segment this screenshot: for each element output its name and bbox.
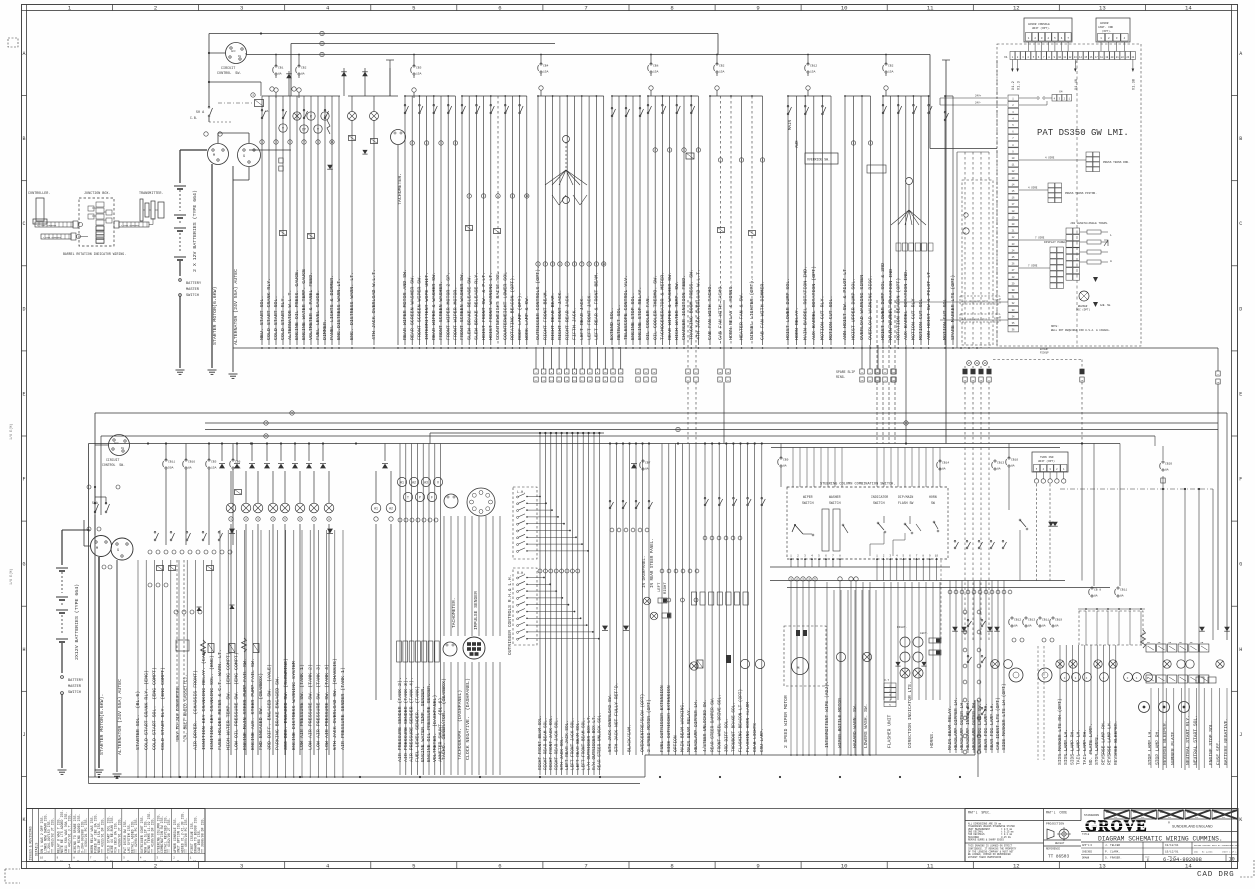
wire: [747, 444, 749, 756]
switch contact: [747, 504, 749, 506]
wire: [754, 444, 756, 756]
circle mid2: [740, 659, 749, 668]
wire: [178, 560, 180, 777]
dashed risers bottom: [964, 448, 966, 641]
svg-text:STARTER MOTOR(6.6KW).: STARTER MOTOR(6.6KW).: [99, 694, 105, 755]
svg-text:J. TELFER: J. TELFER: [1105, 844, 1120, 847]
issues and revisions table outline: [27, 809, 206, 862]
svg-text:REFERENCE: REFERENCE: [1046, 848, 1060, 851]
svg-text:HOIST UPPER DUMP SOL.: HOIST UPPER DUMP SOL.: [851, 278, 857, 340]
svg-text:10: 10: [841, 863, 848, 870]
switch contact: [733, 504, 735, 506]
switch contact: [882, 112, 884, 114]
svg-text:B: B: [1239, 136, 1242, 142]
svg-text:X4: X4: [1059, 91, 1063, 94]
wire: [690, 96, 692, 345]
svg-text:LEFT REAR BEAM SOL.: LEFT REAR BEAM SOL.: [576, 720, 581, 770]
wire: [405, 444, 407, 776]
svg-text:8A: 8A: [188, 467, 192, 470]
circuit breaker CB2: [716, 55, 718, 65]
lamp row bottom: [226, 503, 236, 513]
wire cluster bus: [845, 95, 871, 97]
wire: [566, 433, 568, 775]
switch contact: [954, 547, 956, 549]
wire: [342, 530, 344, 777]
outrigger switch: [517, 503, 519, 505]
wire: [211, 560, 213, 777]
relay: [743, 592, 748, 605]
mid bus 2: [205, 422, 1218, 424]
outrigger switch: [517, 496, 519, 498]
svg-text:SLEW BRAKE RELEASE SW.: SLEW BRAKE RELEASE SW.: [466, 275, 472, 340]
wire: [632, 96, 634, 345]
svg-text:CB4: CB4: [543, 65, 549, 68]
ground alternator bottom: [113, 773, 122, 775]
wire: [527, 543, 582, 545]
wire: [853, 96, 855, 345]
wire: [153, 560, 155, 777]
wire: [595, 96, 597, 345]
svg-text:7 CORE: 7 CORE: [1028, 265, 1038, 268]
switch contact: [625, 115, 627, 117]
switch contact: [519, 112, 521, 114]
circuit breaker CB8: [650, 55, 652, 65]
breaker right corner: [1162, 461, 1164, 463]
svg-text:TITLE: TITLE: [1082, 833, 1090, 836]
svg-text:SIDE OUTRIGGER EXTENSION: SIDE OUTRIGGER EXTENSION: [666, 685, 672, 752]
svg-text:1/8 E(M): 1/8 E(M): [9, 424, 14, 440]
press trans piston block: [1048, 183, 1055, 188]
svg-text:RETRACT SOL.: RETRACT SOL.: [616, 304, 622, 340]
wire: [1211, 688, 1213, 768]
horn mechanism: [933, 521, 935, 523]
terminal: [330, 140, 334, 144]
relay R2: [280, 231, 287, 236]
switch contact: [635, 507, 637, 509]
wire: [364, 68, 366, 96]
svg-text:C: C: [1239, 221, 1242, 227]
alarm wire to strip: [940, 319, 1008, 321]
svg-text:ISS: ISS: [1222, 817, 1225, 819]
wire: [890, 448, 892, 488]
wire: [389, 68, 391, 96]
outrigger switch: [517, 516, 519, 518]
wire: [799, 448, 801, 488]
switch contact: [324, 117, 326, 119]
wire: [492, 516, 494, 636]
wire: [527, 550, 588, 552]
wire: [1226, 688, 1228, 768]
wire: [539, 433, 541, 775]
svg-text:V: V: [317, 128, 319, 132]
svg-text:R: R: [310, 115, 312, 119]
svg-text:TT 4852/92 JT ISS.: TT 4852/92 JT ISS.: [51, 818, 55, 853]
dip main mechanism: [904, 523, 906, 525]
steering column dashed box: [787, 487, 948, 559]
wire: [404, 96, 406, 345]
terminal: [188, 550, 192, 554]
svg-text:8A: 8A: [1094, 595, 1098, 598]
controller cable 12 core screened: [35, 222, 73, 227]
svg-text:L/H OUTRIGGER BOX LT.: L/H OUTRIGGER BOX LT.: [587, 715, 592, 770]
terminal: [453, 141, 457, 145]
wire: [813, 448, 815, 488]
wire: [955, 581, 957, 754]
svg-text:4TH JACK OVERLOAD W.L.T.: 4TH JACK OVERLOAD W.L.T.: [371, 269, 377, 340]
terminal: [682, 148, 686, 152]
terminal: [653, 148, 657, 152]
outrigger switch: [517, 523, 519, 525]
relay R8: [718, 228, 725, 233]
switch contact: [218, 539, 220, 541]
outrigger switch: [517, 631, 519, 633]
wire: [618, 96, 620, 345]
svg-text:X1.3: X1.3: [1017, 81, 1021, 90]
switch contact: [676, 112, 678, 114]
wire: [861, 96, 863, 345]
svg-text:C.B.: C.B.: [190, 116, 198, 120]
svg-text:(A. B&LT RADIO CASSETTE).: (A. B&LT RADIO CASSETTE).: [184, 674, 189, 740]
pin wire: [876, 558, 878, 581]
wire: [527, 523, 564, 525]
svg-text:MOTION CUT RLY.: MOTION CUT RLY.: [820, 296, 826, 340]
svg-text:14: 14: [1185, 863, 1192, 870]
switch contact: [967, 661, 969, 663]
svg-text:15A: 15A: [211, 467, 217, 470]
rect steer1: [658, 598, 667, 603]
title text: [1081, 831, 1238, 833]
bottom bus 2: [89, 783, 641, 785]
diode 385: [382, 464, 388, 469]
wire: [194, 560, 196, 777]
svg-text:R/H OUTRIGGER BOX LT.: R/H OUTRIGGER BOX LT.: [592, 715, 597, 770]
connector pair: [588, 369, 592, 374]
svg-text:15A: 15A: [810, 71, 816, 74]
wire: [499, 516, 501, 636]
svg-text:2 CORE SCREENED: 2 CORE SCREENED: [121, 224, 140, 227]
svg-text:MAIN BEAM WARNING.: MAIN BEAM WARNING.: [679, 702, 685, 752]
svg-text:A2B. SW.: A2B. SW.: [1100, 304, 1111, 307]
left bus bottom corner: [88, 777, 90, 784]
ground alternator: [229, 373, 238, 375]
svg-text:LEFT REAR JACK SOL.: LEFT REAR JACK SOL.: [565, 720, 570, 770]
svg-text:CB9: CB9: [783, 459, 789, 462]
wire: [804, 96, 806, 345]
wire: [648, 444, 650, 756]
svg-text:ENGINE WATER TEMP. GAUGE: ENGINE WATER TEMP. GAUGE: [301, 269, 307, 340]
lamp: [1094, 660, 1102, 668]
svg-text:A: A: [22, 51, 25, 57]
junction box dashed enclosure: [79, 198, 114, 246]
svg-text:6-294-992008: 6-294-992008: [1163, 857, 1202, 863]
wire: [589, 347, 591, 369]
display panel block: [1050, 247, 1057, 252]
wire: [1102, 645, 1104, 755]
wire: [869, 700, 871, 755]
wire: [813, 96, 815, 345]
wire: [612, 347, 614, 369]
wire: [1078, 645, 1080, 755]
projection symbol cone: [1047, 829, 1054, 839]
wire: [1003, 581, 1005, 754]
terminal: [180, 550, 184, 554]
connector pair left: [279, 158, 283, 163]
svg-text:4 CORE: 4 CORE: [1028, 187, 1038, 190]
wire riser 261: [260, 82, 262, 96]
connector pair: [549, 369, 553, 374]
svg-text:REAR WIPER MOTOR AND SW.: REAR WIPER MOTOR AND SW.: [402, 269, 408, 340]
terminal: [256, 517, 260, 521]
wire feeds to starter: [94, 515, 96, 535]
relay: [691, 592, 696, 605]
svg-text:OIL COOLER THERMO. SW.: OIL COOLER THERMO. SW.: [652, 275, 658, 340]
wire: [868, 590, 870, 755]
svg-text:9: 9: [756, 863, 759, 870]
svg-text:JUNCTION BOX.: JUNCTION BOX.: [84, 192, 110, 196]
jib trans arrows: [1104, 240, 1108, 246]
svg-text:BARREL ROTATION INDICATOR WIRI: BARREL ROTATION INDICATOR WIRING.: [63, 252, 126, 256]
wire: [293, 530, 295, 777]
wire: [827, 448, 829, 488]
wire: [635, 444, 637, 756]
svg-text:ENGINE STOP SOL.: ENGINE STOP SOL.: [1208, 721, 1214, 765]
relay: [726, 592, 731, 605]
svg-text:INTERMITTENT WIPE UNIT.: INTERMITTENT WIPE UNIT.: [424, 272, 430, 340]
svg-text:90C (OPT): 90C (OPT): [1076, 308, 1090, 312]
svg-text:MOTION CUT SOL: MOTION CUT SOL: [942, 298, 948, 340]
v contact left: [552, 195, 559, 205]
svg-text:COLD START CRANK RLY.: COLD START CRANK RLY.: [266, 278, 272, 340]
svg-text:2 X 12V BATTERIES (TYPE 664): 2 X 12V BATTERIES (TYPE 664): [192, 190, 198, 272]
connector pair: [876, 369, 880, 374]
svg-text:VOLTMETER. (DASHPANEL): VOLTMETER. (DASHPANEL): [432, 695, 438, 762]
svg-text:CB11: CB11: [1042, 619, 1049, 622]
wire: [1036, 472, 1038, 479]
svg-text:ENG.DISTRESS WARN.LT.: ENG.DISTRESS WARN.LT.: [336, 278, 342, 340]
turn ind terminals: [1034, 479, 1038, 483]
starter motor circle: [208, 144, 229, 165]
svg-text:TT 4066/90 PC ISS.: TT 4066/90 PC ISS.: [184, 818, 188, 853]
steering switch internal wires: [870, 532, 884, 556]
svg-text:OVERLOAD WARNING DISC.: OVERLOAD WARNING DISC.: [868, 275, 874, 340]
terminal: [424, 141, 428, 145]
wire: [593, 433, 595, 775]
svg-text:MOTION CUT SOL: MOTION CUT SOL: [918, 298, 924, 340]
bottom band extra terminals row: [610, 528, 614, 532]
switch contact: [704, 504, 706, 506]
wire: [561, 433, 563, 775]
svg-text:FUEL LEVEL GAUGE.: FUEL LEVEL GAUGE.: [315, 290, 321, 340]
breaker jack: [642, 460, 644, 462]
svg-text:ROTATION BEACON (OPT): ROTATION BEACON (OPT): [895, 278, 901, 340]
wire: [814, 700, 816, 755]
svg-text:R.H.: R.H.: [517, 572, 525, 576]
svg-text:F: F: [1239, 477, 1242, 483]
svg-text:OVERRIDE SW.: OVERRIDE SW.: [807, 158, 830, 162]
svg-text:SUNDERLAND ENGLAND: SUNDERLAND ENGLAND: [1172, 825, 1213, 829]
lamp: [1109, 660, 1117, 668]
wire: [912, 96, 914, 345]
battery master switch bottom: [61, 676, 64, 679]
outrigger switch: [517, 544, 519, 546]
wire: [704, 444, 706, 756]
wire: [932, 448, 934, 488]
wire: [814, 582, 816, 700]
wire: [504, 96, 506, 345]
svg-text:TT 86503: TT 86503: [1048, 855, 1069, 860]
svg-text:ROTATING BEACON (OPT).: ROTATING BEACON (OPT).: [510, 275, 516, 340]
svg-text:PANEL LIGHTS & DIMMER.: PANEL LIGHTS & DIMMER.: [329, 275, 335, 340]
svg-text:X1.38: X1.38: [1133, 79, 1137, 90]
starter motor bottom: [91, 536, 112, 557]
svg-text:ENGINE STOP RELAY.: ENGINE STOP RELAY.: [637, 287, 643, 340]
display panel link: [1019, 267, 1050, 269]
wire: [464, 516, 466, 636]
switch contact: [662, 112, 664, 114]
svg-text:HIGH WATER TEMP. SW.: HIGH WATER TEMP. SW.: [674, 281, 680, 340]
terminal: [327, 517, 331, 521]
wire: [328, 471, 330, 503]
wire: [582, 433, 584, 775]
svg-text:TACHOGRAPH. (DASHPANEL): TACHOGRAPH. (DASHPANEL): [457, 690, 463, 760]
corner registration mark top left: [8, 38, 18, 47]
svg-text:CB7: CB7: [645, 462, 651, 465]
svg-text:FRONT WIPER MOTOR.: FRONT WIPER MOTOR.: [453, 287, 459, 340]
outrigger switch: [517, 618, 519, 620]
outrigger switch: [517, 530, 519, 532]
svg-text:8A: 8A: [942, 468, 946, 471]
wire: [796, 700, 798, 755]
connector pair: [883, 369, 887, 374]
wire: [440, 444, 442, 776]
svg-text:NO. PLATE LAMP.: NO. PLATE LAMP.: [1088, 723, 1094, 765]
svg-text:MAIN BARREL ROTATION IND.: MAIN BARREL ROTATION IND.: [802, 266, 808, 340]
svg-text:STOP LAMP LH.: STOP LAMP LH.: [1147, 729, 1153, 765]
svg-text:5TH JACK OVERLOAD SW.: 5TH JACK OVERLOAD SW.: [607, 694, 613, 752]
relay: [169, 566, 176, 571]
svg-text:DRN EI 42806: DRN EI 42806: [1194, 851, 1213, 854]
svg-text:HOIST LOWER DUMP SOL.: HOIST LOWER DUMP SOL.: [785, 278, 791, 340]
svg-text:HEADLAMP OUTER LH.: HEADLAMP OUTER LH.: [959, 700, 965, 750]
svg-text:FRONT SCREEN WASHER SW.: FRONT SCREEN WASHER SW.: [459, 272, 465, 340]
diode: [362, 72, 368, 76]
terminal row under steering: [789, 577, 793, 581]
outrigger switch: [517, 577, 519, 579]
wire: [334, 530, 336, 777]
terminal chain risers: [963, 610, 967, 614]
wire: [808, 700, 810, 755]
svg-text:FLASHING HORN ALARM: FLASHING HORN ALARM: [746, 702, 751, 752]
wire cluster lamps horizontal: [290, 43, 292, 45]
right corner bus: [1154, 436, 1156, 446]
diode down2: [327, 529, 333, 534]
svg-text:15A: 15A: [543, 71, 549, 74]
wire: [850, 582, 852, 700]
terminal: [312, 517, 316, 521]
wire: [654, 96, 656, 345]
lamp: [1069, 660, 1077, 668]
outrigger switch: [517, 611, 519, 613]
switch contact: [1002, 547, 1004, 549]
wire: [527, 604, 568, 606]
wire: [468, 96, 470, 345]
svg-text:RIGHT FRONT BEAM.: RIGHT FRONT BEAM.: [543, 290, 549, 340]
flash symbol: [327, 120, 330, 134]
svg-text:8A: 8A: [1028, 625, 1032, 628]
svg-text:LEFT FRONT JACK.: LEFT FRONT JACK.: [586, 293, 592, 340]
terminal: [439, 141, 443, 145]
svg-text:DRG No: DRG No: [1214, 812, 1220, 814]
svg-text:RING.: RING.: [836, 375, 846, 379]
svg-text:ENGINE WATER TEMP. SENDER.: ENGINE WATER TEMP. SENDER.: [420, 686, 426, 762]
wire battery top link: [62, 529, 89, 531]
switch contact: [804, 113, 806, 115]
svg-text:(OPT).: (OPT).: [1102, 29, 1111, 33]
wire dashed: [980, 366, 982, 369]
svg-text:4TH JACK OVERLOAD W.L.T.: 4TH JACK OVERLOAD W.L.T.: [696, 269, 702, 340]
connector pair: [686, 369, 690, 374]
svg-text:8A: 8A: [997, 468, 1001, 471]
svg-text:TRACKING BOOM PRESS. SW.: TRACKING BOOM PRESS. SW.: [688, 269, 694, 340]
svg-text:TT 4391/91 PC ISS.: TT 4391/91 PC ISS.: [84, 818, 88, 853]
terminal: [298, 517, 302, 521]
svg-text:REAR STEER DAMPER SW.: REAR STEER DAMPER SW.: [710, 697, 715, 752]
left vertical bus b: [88, 444, 90, 778]
wire: [170, 560, 172, 777]
terminal: [196, 550, 200, 554]
lamp: [1083, 673, 1092, 682]
svg-text:12: 12: [1013, 5, 1020, 12]
terminal: [228, 550, 232, 554]
battery stack bottom: [61, 530, 63, 565]
svg-text:6: 6: [498, 5, 501, 12]
relay main feed: [218, 102, 252, 104]
svg-text:ANN HOIST SW & PILOT LT: ANN HOIST SW & PILOT LT: [926, 272, 932, 340]
wire: [266, 444, 268, 462]
impulse sender circle: [463, 637, 485, 659]
harness bus dots: [261, 347, 263, 349]
wire: [925, 448, 927, 488]
pin wire: [922, 558, 924, 581]
wire: [527, 583, 550, 585]
switch contact: [504, 112, 506, 114]
svg-text:T: T: [407, 496, 409, 500]
wire: [806, 448, 808, 488]
svg-text:24V-: 24V-: [975, 102, 982, 105]
matl code cell: [1043, 809, 1045, 862]
connector pair: [971, 369, 975, 374]
lamp steer1: [643, 597, 651, 605]
pin wire: [889, 558, 891, 581]
svg-text:PAT DS350 GW LMI.: PAT DS350 GW LMI.: [1037, 128, 1129, 138]
svg-text:BATTERY: BATTERY: [68, 679, 84, 683]
wire: [826, 700, 828, 755]
svg-text:K: K: [22, 817, 25, 823]
dash-dot bus right: [1060, 488, 1213, 490]
turn wires: [1019, 530, 1021, 581]
wire: [834, 448, 836, 488]
wire: [904, 448, 906, 488]
switch contact: [154, 539, 156, 541]
svg-text:LEFT: LEFT: [658, 582, 662, 592]
wire: [272, 471, 274, 503]
wire: [675, 444, 677, 756]
svg-text:17: 17: [967, 362, 971, 365]
svg-text:SWITCH: SWITCH: [802, 501, 814, 505]
svg-text:CB13: CB13: [1028, 619, 1035, 622]
top bus A: [209, 33, 718, 35]
turn ind switch: [1019, 519, 1021, 521]
